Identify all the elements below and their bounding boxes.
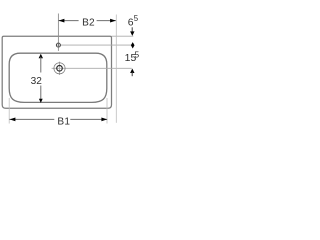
washbasin outer outline [2,36,111,108]
line B through small hole to right [56,44,133,46]
B1 left arrow [10,118,16,122]
bowl right edge extension down to B1 [106,98,108,124]
B2 left arrow [59,19,65,23]
svg-text:5: 5 [134,14,139,23]
svg-text:B2: B2 [82,18,95,29]
diamond (two arrowheads) at line B [131,42,135,48]
rear edge extension line A [112,35,134,37]
B1 right arrow [101,118,107,122]
bowl left edge extension down to B1 [8,98,10,124]
B2 dimension line [58,20,78,22]
centerline through small hole (vertical) [57,14,59,51]
32 lower stem + down arrow at bowl front edge [40,86,42,100]
small hole circle [56,43,60,47]
B1 dimension line [9,118,54,120]
tap hole inner circle [57,66,63,72]
6.5 dimension: stem+arrow above rear edge [131,27,133,32]
svg-text:B1: B1 [57,117,70,128]
right extension line (from B2 down) [115,15,117,123]
32 dimension: upper arrow pointing up at bowl rear edge [39,54,43,59]
tap hole outer circle [54,63,65,74]
15.5 lower arrow pointing up at line C [130,69,134,74]
B2 right arrow [110,19,116,23]
svg-text:5: 5 [134,49,139,59]
line C through tap hole to right [52,67,132,69]
big tap hole centerline vertical [59,62,61,75]
inner bowl outline [9,53,107,102]
